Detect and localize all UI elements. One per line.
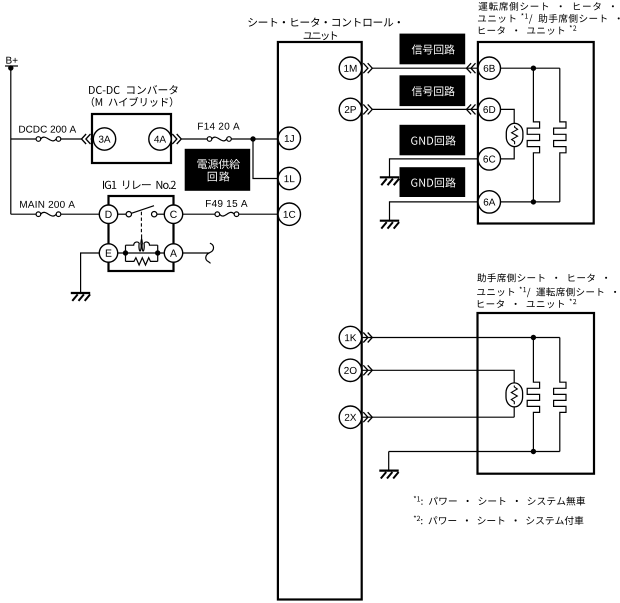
wire fuse F14 to pin 1J <box>232 138 278 140</box>
thermistor (driver unit) <box>506 123 523 146</box>
relay actuation dashed link <box>140 212 142 235</box>
wire heater elements to ground bus <box>389 451 560 453</box>
pin 6C <box>478 148 500 170</box>
pin 2P <box>339 98 361 120</box>
pin 1J <box>278 127 300 149</box>
wire B+ to fuse DCDC <box>11 138 36 140</box>
label IG1 relay No.2 <box>103 181 176 190</box>
label B+ <box>6 57 17 64</box>
signal circuit block 1 <box>400 34 466 65</box>
wire continuation squiggle at pin A <box>206 243 214 263</box>
GND circuit block 2 <box>400 167 466 197</box>
wire B+ vertical bus <box>10 68 12 214</box>
footnote 2 <box>414 515 584 525</box>
relay coil <box>126 239 158 251</box>
relay IG1 No.2 box <box>109 196 174 271</box>
junction 6A <box>531 199 536 204</box>
junction coil right <box>155 250 160 255</box>
label fuse F14 20 A <box>198 123 240 130</box>
junction node F14/1L <box>250 136 255 141</box>
wire fuse DCDC to connector <box>61 138 82 140</box>
label passenger seat heater unit line1 <box>477 273 607 282</box>
relay coil shunt resistor <box>126 258 158 265</box>
label passenger seat heater unit line2 <box>477 287 616 298</box>
heater element left (driver unit) <box>527 68 539 202</box>
wire into pin 3A <box>91 138 94 140</box>
ground passenger unit <box>379 470 398 472</box>
label M hybrid <box>92 97 173 107</box>
relay switch contact left <box>126 212 131 217</box>
connector chevrons into DC-DC converter <box>82 134 91 144</box>
fuse MAIN 200 A <box>36 212 61 217</box>
relay coil network right side <box>157 245 159 261</box>
connector chevrons out of pin 1M <box>363 63 372 73</box>
wire 2X to thermistor <box>362 416 514 418</box>
label fuse MAIN 200 A <box>20 201 75 208</box>
relay pin A <box>164 244 182 262</box>
pin 6B <box>478 57 500 79</box>
fuse F14 20 A <box>207 137 231 142</box>
wire 1K to heater elements <box>362 337 560 339</box>
pin 3A <box>93 128 115 150</box>
pin 1L <box>278 167 300 189</box>
pin 6D <box>478 98 500 120</box>
connector chevrons out of pin 2O <box>363 365 372 375</box>
connector chevrons out of DC-DC converter <box>172 134 181 144</box>
footnote 1 <box>414 496 585 506</box>
wire relay pin D to contact <box>118 213 127 215</box>
label passenger seat heater unit line3 <box>478 299 577 309</box>
wire 2O to thermistor <box>362 370 514 383</box>
junction ground bus <box>531 449 536 454</box>
pin 1M <box>339 57 361 79</box>
relay switch contact right <box>152 212 157 217</box>
relay pin C <box>164 205 182 223</box>
ground relay <box>71 292 90 294</box>
junction 6B <box>531 66 536 71</box>
label seat heater control unit line2 <box>304 31 338 40</box>
label DC-DC converter <box>89 85 178 94</box>
relay coil network left side <box>125 245 127 261</box>
label fuse F49 15 A <box>206 200 248 207</box>
wire junction to pin 1L <box>253 139 278 179</box>
wire 6D to thermistor <box>501 109 515 123</box>
junction 1K <box>531 335 536 340</box>
ground 6A <box>380 220 399 222</box>
pin 2O <box>339 359 361 381</box>
wire 1M to 6B <box>372 67 478 69</box>
wire 6C to ground <box>390 159 478 177</box>
wire fuse MAIN to relay pin D <box>61 213 99 215</box>
seat heater control unit box <box>278 42 362 600</box>
junction coil left <box>123 250 128 255</box>
wire relay pin C to fuse F49 <box>183 213 215 215</box>
wire 2P to 6D <box>372 108 478 110</box>
label driver seat heater unit line1 <box>479 2 614 11</box>
wire 6A to heater elements <box>501 201 560 203</box>
connector chevrons into pin 6D <box>467 104 476 114</box>
connector chevrons out of pin 2X <box>363 412 372 422</box>
wire ground bus drop <box>388 452 390 471</box>
relay coil center stub <box>141 234 143 238</box>
wire 4A to fuse F14 <box>182 138 208 140</box>
pin 1C <box>278 203 300 225</box>
connector chevrons out of pin 2P <box>363 104 372 114</box>
fuse DCDC 200 A <box>36 137 61 142</box>
wire 6B to heater elements <box>501 67 560 69</box>
label driver seat heater unit line3 <box>479 25 577 35</box>
relay pin D <box>99 205 117 223</box>
power supply circuit block <box>185 149 251 191</box>
heater element right (passenger unit) <box>554 338 566 452</box>
heater element right (driver unit) <box>554 68 566 202</box>
battery terminal B+ bar <box>5 65 18 67</box>
DC-DC converter box <box>92 114 171 163</box>
wire relay pin E to ground <box>81 253 100 293</box>
pin 1K <box>339 326 361 348</box>
ground 6C <box>380 176 399 178</box>
pin 6A <box>478 191 500 213</box>
driver seat heater unit box <box>478 42 594 224</box>
relay pin E <box>99 244 117 262</box>
fuse F49 15 A <box>215 212 239 217</box>
wire thermistor to 2X row <box>513 407 515 417</box>
passenger seat heater unit box <box>478 313 595 474</box>
wire contact to relay pin C <box>157 213 164 215</box>
pin 2X <box>339 406 361 428</box>
wire relay pin E to pin A <box>118 252 165 254</box>
connector chevrons out of pin 1K <box>363 333 372 343</box>
wire thermistor to 6C <box>501 147 515 159</box>
heater element left (passenger unit) <box>527 338 539 452</box>
node B+ junction <box>8 65 13 70</box>
signal circuit block 2 <box>400 75 466 106</box>
pin 4A <box>149 128 171 150</box>
label seat heater control unit line1 <box>248 18 400 27</box>
wire fuse F49 to pin 1C <box>239 213 278 215</box>
thermistor (passenger unit) <box>506 383 523 407</box>
label driver seat heater unit line2 <box>478 13 620 24</box>
label fuse DCDC 200 A <box>19 126 76 133</box>
GND circuit block 1 <box>400 125 466 156</box>
relay switch blade <box>131 206 154 214</box>
wire B+ to fuse MAIN <box>11 213 36 215</box>
wire 6A to ground <box>390 202 478 221</box>
wire relay pin A continuation <box>183 252 210 254</box>
connector chevrons into pin 6B <box>467 63 476 73</box>
